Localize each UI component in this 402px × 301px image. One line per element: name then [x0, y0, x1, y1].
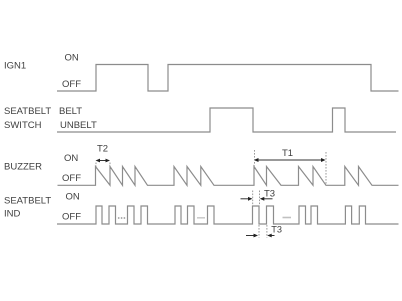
svg-text:BELT: BELT: [59, 106, 82, 117]
svg-text:IGN1: IGN1: [4, 61, 26, 72]
svg-text:ON: ON: [66, 192, 80, 203]
svg-text:SWITCH: SWITCH: [4, 120, 42, 131]
svg-text:IND: IND: [4, 209, 21, 220]
ellipsis dots between IND pulses (group 1): [118, 217, 120, 219]
T3 bottom right arrow: [269, 235, 275, 237]
BUZZER sawtooth waveform: [58, 167, 399, 186]
svg-text:T3: T3: [264, 189, 275, 200]
svg-text:SEATBELT: SEATBELT: [4, 106, 51, 117]
T3 top dashed guides: [252, 191, 254, 206]
svg-text:SEATBELT: SEATBELT: [4, 196, 51, 207]
ellipsis dash between IND pulses (group 2): [197, 217, 205, 219]
svg-text:ON: ON: [65, 53, 79, 64]
T3 bottom left arrow: [246, 235, 256, 237]
ellipsis dash between IND pulses (group 3): [283, 217, 292, 219]
T3 bottom dashed guides: [258, 225, 260, 238]
T2 dashed guide right: [109, 163, 111, 168]
svg-text:BUZZER: BUZZER: [4, 162, 42, 173]
T3 top right arrow: [262, 198, 273, 200]
T2 double arrow: [97, 160, 109, 162]
T1 double arrow: [255, 159, 325, 161]
T1 dashed guide right: [325, 152, 327, 185]
svg-text:UNBELT: UNBELT: [60, 120, 97, 131]
svg-text:OFF: OFF: [62, 173, 81, 184]
IGN1 waveform: [57, 65, 399, 92]
T1 dashed guide left: [254, 150, 256, 166]
svg-text:OFF: OFF: [62, 212, 81, 223]
SEATBELT IND pulse waveform: [57, 206, 399, 224]
T2 dashed guide left: [95, 163, 97, 168]
SEATBELT SWITCH waveform: [57, 108, 396, 132]
svg-text:T3: T3: [271, 224, 282, 234]
svg-text:T2: T2: [97, 144, 108, 155]
svg-text:OFF: OFF: [62, 79, 81, 90]
T3 top left arrow: [241, 198, 251, 200]
svg-text:T1: T1: [282, 148, 293, 159]
svg-text:ON: ON: [64, 153, 78, 164]
